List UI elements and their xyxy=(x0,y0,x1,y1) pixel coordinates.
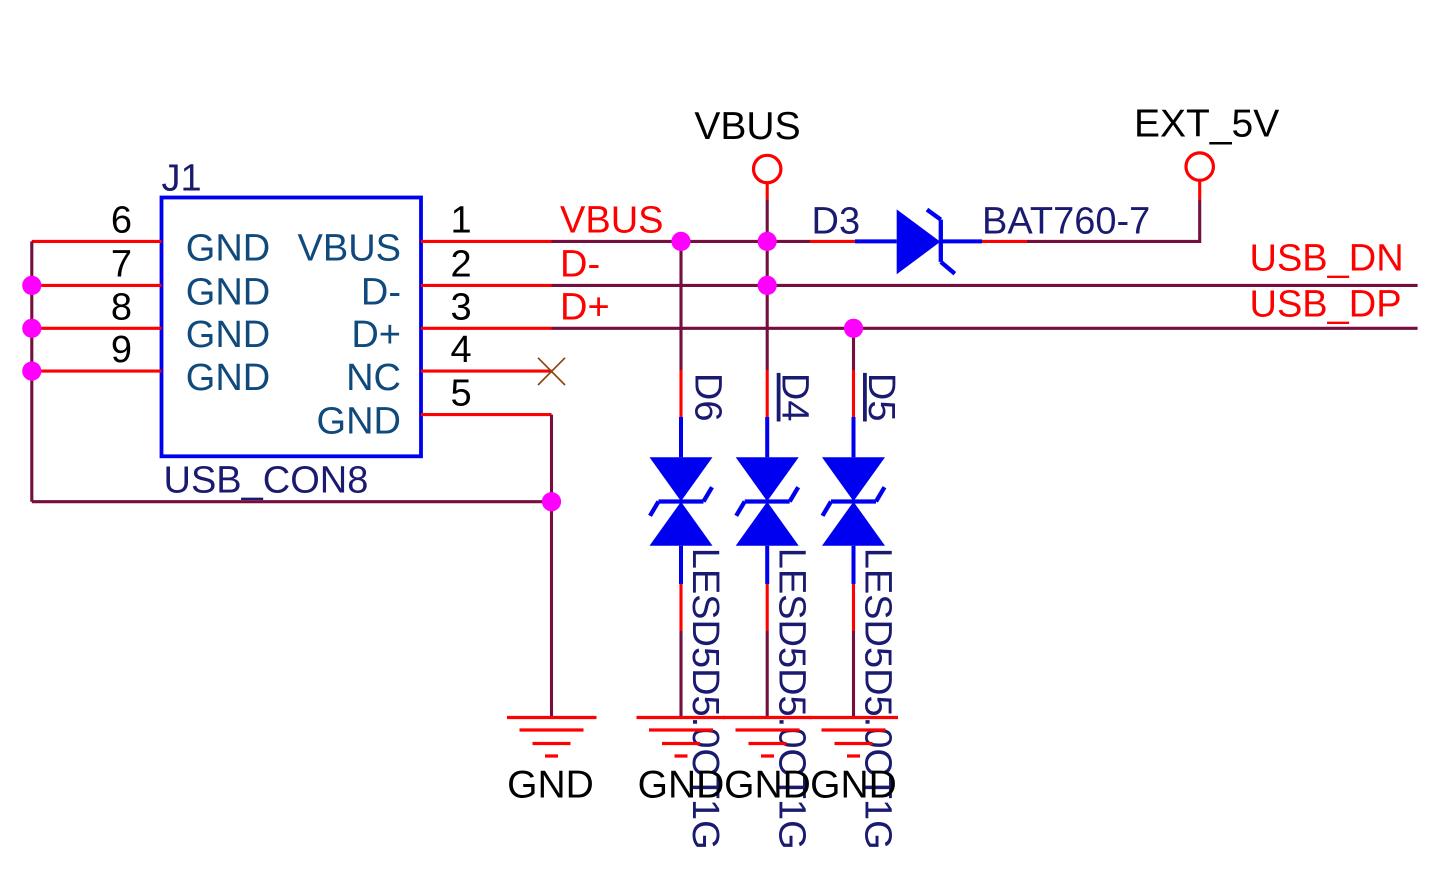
svg-text:J1: J1 xyxy=(162,158,202,200)
svg-text:GND: GND xyxy=(507,764,594,807)
svg-text:D+: D+ xyxy=(351,314,401,356)
power terminal EXT_5V circle xyxy=(1186,153,1213,199)
junction dot USB_DP/D5 xyxy=(844,319,863,338)
wire USB_DN net xyxy=(552,284,1418,287)
svg-text:VBUS: VBUS xyxy=(298,227,401,269)
pin 8 stub xyxy=(32,327,162,330)
ground symbol under D5 xyxy=(809,718,898,757)
wire VBUS net xyxy=(552,240,811,243)
pin 2 stub xyxy=(421,284,552,287)
svg-text:VBUS: VBUS xyxy=(694,105,800,148)
svg-text:6: 6 xyxy=(111,199,132,241)
pin 9 stub xyxy=(32,370,162,373)
junction dot VBUS/D6 xyxy=(671,232,690,251)
svg-text:1: 1 xyxy=(451,199,472,241)
pin 5 stub xyxy=(421,413,552,416)
TVS diode D5 xyxy=(822,370,885,718)
ground symbol under D6 xyxy=(637,718,726,757)
wire EXT_5V to diode xyxy=(1027,199,1200,241)
svg-text:7: 7 xyxy=(111,243,132,285)
svg-text:BAT760-7: BAT760-7 xyxy=(982,201,1150,243)
wire D5 drop xyxy=(852,328,855,370)
no-connect X on pin 4 xyxy=(538,358,565,385)
wire USB_DP net xyxy=(552,327,1418,330)
pin 6 stub xyxy=(32,240,162,243)
svg-text:D-: D- xyxy=(361,271,401,313)
svg-text:D4: D4 xyxy=(774,373,816,422)
svg-text:2: 2 xyxy=(451,243,472,285)
junction dot pin7 xyxy=(22,276,41,295)
junction dot pin8 xyxy=(22,319,41,338)
svg-text:GND: GND xyxy=(186,314,270,356)
svg-text:D3: D3 xyxy=(812,201,861,243)
wire D6 drop xyxy=(679,241,682,370)
junction dot USB_DN/D4 xyxy=(758,276,777,295)
wire pin5 to ground xyxy=(550,415,553,718)
svg-text:9: 9 xyxy=(111,329,132,371)
svg-text:GND: GND xyxy=(638,764,725,807)
TVS diode D4 xyxy=(736,370,799,718)
connector J1 body xyxy=(162,198,422,457)
svg-text:GND: GND xyxy=(724,764,811,807)
pin 4 stub xyxy=(421,370,552,373)
svg-text:GND: GND xyxy=(186,227,270,269)
svg-text:D6: D6 xyxy=(687,373,729,422)
wire VBUS drop to D4 xyxy=(766,199,769,370)
ground symbol at J1 pin5 xyxy=(507,718,597,757)
svg-text:D+: D+ xyxy=(560,287,610,329)
svg-text:USB_DP: USB_DP xyxy=(1250,284,1402,326)
svg-text:USB_CON8: USB_CON8 xyxy=(164,460,369,502)
svg-text:3: 3 xyxy=(451,286,472,328)
wire left ground bus vertical xyxy=(30,241,33,501)
pin 7 stub xyxy=(32,284,162,287)
diode D3 xyxy=(810,209,1027,274)
svg-text:GND: GND xyxy=(810,764,897,807)
junction dot pin9 xyxy=(22,362,41,381)
svg-text:D5: D5 xyxy=(860,373,902,422)
wire bottom ground run xyxy=(32,500,552,503)
svg-text:4: 4 xyxy=(451,329,472,371)
svg-text:D-: D- xyxy=(560,244,600,286)
power terminal VBUS circle xyxy=(754,155,781,199)
TVS diode D6 xyxy=(650,370,713,718)
svg-text:8: 8 xyxy=(111,286,132,328)
pin 3 stub xyxy=(421,327,552,330)
svg-text:VBUS: VBUS xyxy=(560,200,663,242)
svg-text:5: 5 xyxy=(451,373,472,415)
svg-text:USB_DN: USB_DN xyxy=(1250,238,1404,280)
svg-text:NC: NC xyxy=(346,357,401,399)
pin 1 stub xyxy=(421,240,552,243)
svg-text:GND: GND xyxy=(186,357,270,399)
svg-text:EXT_5V: EXT_5V xyxy=(1134,103,1279,146)
svg-text:GND: GND xyxy=(186,271,270,313)
svg-text:GND: GND xyxy=(317,401,401,443)
ground symbol under D4 xyxy=(723,718,812,757)
junction dot ground run xyxy=(542,492,561,511)
junction dot VBUS riser xyxy=(758,232,777,251)
